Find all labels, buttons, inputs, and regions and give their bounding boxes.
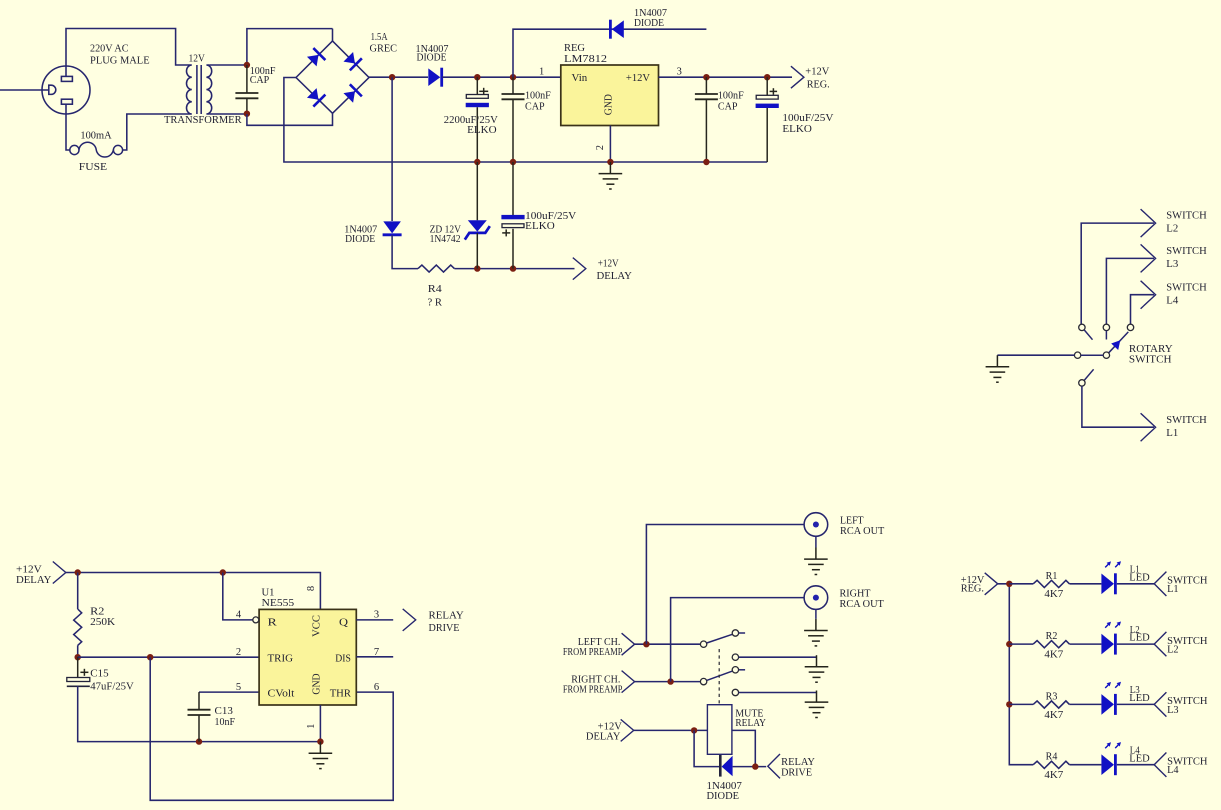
port +12V DELAY (input) <box>53 562 66 584</box>
svg-text:LED: LED <box>1129 753 1150 764</box>
svg-text:100uF/25V: 100uF/25V <box>782 113 834 124</box>
svg-text:REG.: REG. <box>961 584 984 595</box>
wire up to RIGHT RCA <box>671 598 805 682</box>
resistor R4 <box>418 265 454 272</box>
svg-text:U1: U1 <box>262 587 275 598</box>
svg-text:DRIVE: DRIVE <box>781 768 812 779</box>
zener ZD 12V 1N4742 (points down, on ground leg) <box>476 162 478 220</box>
svg-text:DRIVE: DRIVE <box>429 623 460 634</box>
wire to relay contact (right) <box>635 681 701 683</box>
svg-text:L4: L4 <box>1167 765 1179 776</box>
port SWITCH L2 <box>1081 223 1154 324</box>
svg-text:DIODE: DIODE <box>707 791 740 802</box>
capacitor C13 10nF <box>199 691 259 693</box>
pin 4 wire with bubble <box>223 573 253 620</box>
svg-text:2: 2 <box>236 647 241 658</box>
svg-text:R2: R2 <box>1046 631 1058 642</box>
capacitor 100nF C-in <box>235 93 258 98</box>
svg-text:FROM PREAMP: FROM PREAMP <box>563 684 623 695</box>
svg-text:7: 7 <box>374 647 379 658</box>
RCA jack RIGHT <box>804 586 828 610</box>
wire <box>1117 583 1154 585</box>
resistor R2 250K <box>77 573 79 610</box>
port SWITCH L4 <box>1154 753 1166 777</box>
diode D5 1N4007 series <box>428 68 441 87</box>
wire: R4 to +12V DELAY port <box>454 268 574 270</box>
svg-text:GREC: GREC <box>370 44 398 55</box>
svg-text:ELKO: ELKO <box>525 221 555 232</box>
svg-text:SWITCH: SWITCH <box>1166 211 1206 222</box>
svg-text:DIODE: DIODE <box>345 234 375 245</box>
svg-text:DELAY: DELAY <box>597 271 633 282</box>
pin 3 Q output <box>356 619 393 621</box>
svg-text:+12V: +12V <box>16 565 42 576</box>
contact L1 (below) <box>1084 369 1093 380</box>
svg-text:TRANSFORMER: TRANSFORMER <box>164 115 242 126</box>
bridge rectifier GREC 1.5A <box>296 29 369 114</box>
node TRIG rail <box>75 654 81 660</box>
svg-text:L1: L1 <box>1166 428 1178 439</box>
resistor R3 4K7 <box>1009 703 1033 705</box>
port SWITCH L3 <box>1154 692 1166 716</box>
svg-text:R4: R4 <box>428 284 443 295</box>
svg-text:1N4742: 1N4742 <box>430 234 461 245</box>
svg-text:100nF: 100nF <box>525 91 551 102</box>
svg-text:SWITCH: SWITCH <box>1166 246 1206 257</box>
svg-text:LED: LED <box>1129 633 1150 644</box>
svg-text:FROM PREAMP: FROM PREAMP <box>563 647 623 658</box>
svg-text:GND: GND <box>603 94 615 115</box>
capacitor 2200uF/25V ELKO <box>466 95 489 108</box>
throw contact to ground 2 <box>732 689 738 695</box>
port SWITCH L1 <box>1154 572 1166 596</box>
wire <box>1069 643 1101 645</box>
wire up to LEFT RCA <box>646 525 804 645</box>
svg-text:100nF: 100nF <box>718 91 744 102</box>
ground under RIGHT RCA <box>815 609 817 619</box>
relay switch pole 2 <box>700 678 706 684</box>
svg-text:4K7: 4K7 <box>1044 770 1063 781</box>
svg-text:ELKO: ELKO <box>782 124 812 135</box>
wire <box>1069 764 1101 766</box>
wire: C15 bottom to gnd rail <box>78 686 321 741</box>
svg-text:ROTARY: ROTARY <box>1129 344 1173 355</box>
svg-text:3: 3 <box>374 610 379 621</box>
RCA jack LEFT <box>804 513 828 537</box>
port +12V REG. output <box>791 66 804 88</box>
svg-text:SWITCH: SWITCH <box>1129 355 1172 366</box>
port SWITCH L3 <box>1106 258 1154 324</box>
svg-text:L4: L4 <box>1166 295 1178 306</box>
IC U1 NE555 <box>259 609 356 705</box>
svg-text:GND: GND <box>311 673 323 694</box>
wire: bridge right corner to diode D5 <box>369 76 428 78</box>
wire port to coil <box>634 729 708 731</box>
throw contact to ground 1 <box>732 654 738 660</box>
svg-text:R1: R1 <box>1046 571 1058 582</box>
svg-text:CAP: CAP <box>525 102 545 113</box>
transformer T1 <box>186 65 211 114</box>
bridge diode D1 (left-top) <box>306 48 326 68</box>
wire to port SWITCH L1 <box>1082 386 1154 427</box>
ground under LEFT RCA <box>815 536 817 547</box>
pin 1 wire <box>319 705 321 742</box>
bridge diode D3 (left-bottom) <box>306 87 326 107</box>
svg-text:DIS: DIS <box>335 652 351 664</box>
LED L2 <box>1101 622 1121 655</box>
svg-text:VCC: VCC <box>311 615 323 637</box>
svg-text:C15: C15 <box>90 668 108 679</box>
svg-text:DELAY: DELAY <box>586 732 621 743</box>
svg-text:Vin: Vin <box>572 72 588 84</box>
svg-text:L2: L2 <box>1167 645 1179 656</box>
capacitor 100uF/25V ELKO delay (inverted) <box>512 162 514 215</box>
svg-text:220V AC: 220V AC <box>90 44 129 55</box>
svg-text:10nF: 10nF <box>215 717 236 728</box>
wire: node B to bridge bottom <box>247 113 333 125</box>
svg-text:2: 2 <box>595 145 606 150</box>
wire: mains lead into plug <box>0 89 49 91</box>
LED rail <box>998 584 1033 765</box>
diode D8 1N4007 flyback (points left) <box>719 755 722 777</box>
resistor R1 4K7 <box>1009 583 1033 585</box>
svg-text:4K7: 4K7 <box>1044 710 1063 721</box>
svg-text:R3: R3 <box>1046 691 1058 702</box>
svg-text:? R: ? R <box>428 297 443 308</box>
svg-text:SWITCH: SWITCH <box>1166 282 1206 293</box>
svg-text:RCA OUT: RCA OUT <box>840 599 885 610</box>
svg-text:1: 1 <box>539 66 544 77</box>
wire: delay rail to VCC <box>66 573 321 610</box>
svg-text:NE555: NE555 <box>262 598 295 609</box>
svg-text:CAP: CAP <box>718 102 738 113</box>
svg-text:THR: THR <box>330 688 352 700</box>
wire <box>1117 643 1154 645</box>
capacitor 100nF C3 <box>695 94 718 99</box>
svg-text:DELAY: DELAY <box>16 575 52 586</box>
svg-text:L2: L2 <box>1166 224 1178 235</box>
svg-text:LEFT: LEFT <box>840 515 864 526</box>
svg-text:DIODE: DIODE <box>417 53 447 64</box>
svg-text:DIODE: DIODE <box>634 18 664 29</box>
svg-text:L3: L3 <box>1166 259 1178 270</box>
rotary wiper arm with arrow <box>1109 332 1129 353</box>
dashed actuator line <box>718 649 720 705</box>
capacitor C15 47uF/25V <box>77 657 79 677</box>
node A junction <box>244 62 250 68</box>
wire: fuse to transformer primary bottom <box>123 114 189 150</box>
capacitor 100nF C2 <box>502 94 525 99</box>
svg-text:RELAY: RELAY <box>429 611 465 622</box>
pin 7 DIS stub <box>356 656 393 658</box>
diode D7 1N4007 vertical (points down) <box>383 221 402 234</box>
wire: node A up and right to bridge top <box>247 29 333 65</box>
wire: unreg node down to D7 <box>391 77 393 221</box>
port RELAY DRIVE (input) <box>768 754 780 778</box>
svg-text:R: R <box>268 617 278 629</box>
svg-text:CAP: CAP <box>250 75 270 86</box>
port +12V DELAY (relay) <box>621 719 634 741</box>
resistor R4 4K7 <box>1033 761 1069 768</box>
svg-text:12V: 12V <box>189 53 206 64</box>
wire to relay contact (left) <box>635 643 701 645</box>
pin 3 wire <box>659 76 793 78</box>
svg-text:RIGHT: RIGHT <box>840 589 872 600</box>
svg-text:5: 5 <box>236 682 241 693</box>
svg-text:6: 6 <box>374 682 379 693</box>
port RIGHT CH. FROM PREAMP <box>622 671 635 693</box>
svg-text:3: 3 <box>677 66 682 77</box>
svg-text:PLUG MALE: PLUG MALE <box>90 56 150 67</box>
svg-text:ELKO: ELKO <box>467 125 497 136</box>
wire: secondary top to node A <box>209 64 247 66</box>
svg-text:RELAY: RELAY <box>735 718 766 729</box>
port SWITCH L4 <box>1131 295 1155 325</box>
svg-text:250K: 250K <box>90 617 116 628</box>
relay switch pole 1 <box>700 641 706 647</box>
svg-text:1.5A: 1.5A <box>371 32 388 43</box>
bridge diode D2 (top-right) <box>342 51 362 71</box>
wire: bypass diode top run <box>513 29 706 77</box>
LED L3 <box>1101 682 1121 715</box>
port SWITCH L2 <box>1154 632 1166 656</box>
svg-text:RCA OUT: RCA OUT <box>840 526 885 537</box>
svg-text:REG.: REG. <box>807 80 830 91</box>
wire: D5 to LM7812 pin1 <box>442 76 561 78</box>
ground at rotary switch <box>986 355 1010 382</box>
svg-text:Q: Q <box>339 617 348 629</box>
svg-text:FUSE: FUSE <box>79 162 107 173</box>
port LEFT CH. FROM PREAMP <box>622 633 635 655</box>
svg-text:R2: R2 <box>90 606 104 617</box>
svg-text:4K7: 4K7 <box>1044 650 1063 661</box>
svg-text:8: 8 <box>306 586 317 591</box>
svg-text:1: 1 <box>306 724 317 729</box>
wire <box>1069 583 1101 585</box>
wire left side down to diode <box>694 730 719 766</box>
svg-text:C13: C13 <box>215 706 233 717</box>
svg-text:LM7812: LM7812 <box>564 54 607 65</box>
LED L1 <box>1101 561 1121 594</box>
resistor R2 4K7 <box>1009 643 1033 645</box>
regulator U2 LM7812 <box>561 65 659 126</box>
diode D6 1N4007 bypass (points left) <box>610 20 623 39</box>
svg-text:4K7: 4K7 <box>1044 589 1063 600</box>
svg-text:REG: REG <box>564 43 585 54</box>
capacitor 100uF/25V ELKO output <box>756 95 779 108</box>
svg-text:CVolt: CVolt <box>268 688 295 700</box>
wire <box>1069 703 1101 705</box>
svg-text:L1: L1 <box>1167 584 1179 595</box>
wire: secondary bottom to node B <box>209 113 247 115</box>
rotary switch contacts <box>1079 324 1085 330</box>
wire: bridge left corner to ground rail <box>284 78 767 163</box>
svg-text:+12V: +12V <box>598 258 619 269</box>
ground under 555 <box>309 742 333 769</box>
svg-text:TRIG: TRIG <box>268 652 294 664</box>
wire <box>1117 764 1154 766</box>
node unreg junction <box>389 74 395 80</box>
svg-text:LED: LED <box>1129 572 1150 583</box>
pin 2 wire and label <box>609 126 611 163</box>
svg-text:+12V: +12V <box>805 66 829 77</box>
svg-text:R4: R4 <box>1046 752 1058 763</box>
svg-text:L3: L3 <box>1167 705 1179 716</box>
svg-text:RELAY: RELAY <box>781 757 815 768</box>
wire: TRIG node down to THR loop <box>150 657 393 800</box>
ground symbol under regulator <box>599 162 623 189</box>
LED L4 <box>1101 742 1121 775</box>
svg-text:47uF/25V: 47uF/25V <box>90 682 134 693</box>
plug male 220V AC <box>42 66 90 114</box>
wire: D7 to delay rail <box>392 235 418 269</box>
wire: plug top to transformer primary <box>66 29 189 67</box>
wire <box>1117 703 1154 705</box>
port +12V REG. <box>985 573 998 595</box>
bridge diode D4 (bottom-right) <box>342 84 362 104</box>
svg-text:LED: LED <box>1129 693 1150 704</box>
svg-text:4: 4 <box>236 610 242 621</box>
wire coil right side down <box>732 730 755 766</box>
port +12V DELAY (top) <box>573 258 586 280</box>
node B junction <box>244 111 250 117</box>
relay coil MUTE RELAY <box>707 705 732 755</box>
svg-text:+12V: +12V <box>626 72 650 84</box>
fuse <box>70 142 123 157</box>
wire: wiper common to ground <box>997 354 1074 356</box>
svg-text:SWITCH: SWITCH <box>1166 415 1206 426</box>
svg-text:100mA: 100mA <box>80 130 112 141</box>
wire: plug bottom to fuse <box>66 114 70 150</box>
